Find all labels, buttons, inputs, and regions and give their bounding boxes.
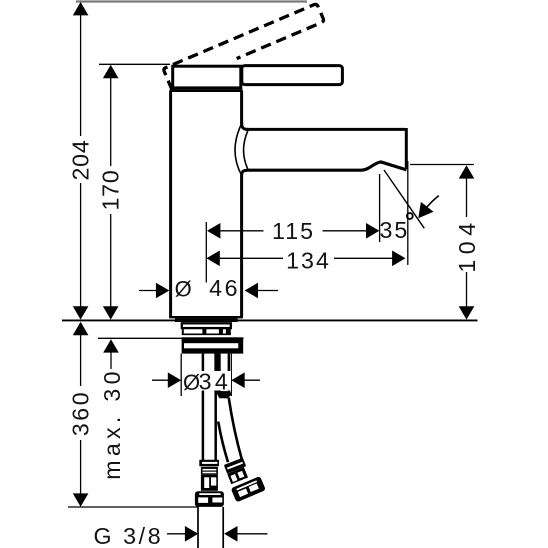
wire 35deg jet line <box>384 170 424 228</box>
arrow G38 left-pointing <box>224 526 237 542</box>
hose right elbow <box>216 391 232 399</box>
arrow 115 left <box>207 223 220 239</box>
fastening nut <box>182 337 244 353</box>
body right edge upper <box>240 91 243 124</box>
arrow 104 bottom <box>459 306 475 319</box>
bottom extension line (hose end) <box>68 506 198 508</box>
shank bottom line <box>182 333 231 335</box>
arrow dia46 left <box>156 283 169 299</box>
spout top edge <box>246 128 405 131</box>
handle lever raised (dashed outline) <box>163 3 326 90</box>
arrow G38 right-pointing <box>185 526 198 542</box>
arrow 115 right <box>366 223 379 239</box>
handle hub <box>173 66 241 88</box>
svg-text:Ø: Ø <box>175 276 192 301</box>
hose right ribbed section <box>227 467 248 484</box>
arrow 134 left <box>206 251 219 267</box>
svg-text:115: 115 <box>272 218 315 244</box>
spout joint inner arc <box>244 131 248 169</box>
arrow 204 top <box>73 2 89 15</box>
dimension dia34 right tail <box>243 379 260 381</box>
svg-text:G 3/8: G 3/8 <box>94 523 164 548</box>
spout joint corner top <box>242 123 248 130</box>
hose left stripe band <box>201 467 218 474</box>
body base ring <box>175 318 238 322</box>
dimension 104 line <box>466 178 468 217</box>
body bottom edge <box>169 316 243 318</box>
hose right end block <box>231 476 266 502</box>
svg-text:46: 46 <box>209 275 240 301</box>
dimension G38 right tail <box>236 533 268 535</box>
spout right edge <box>405 128 408 169</box>
hose right tube right outline <box>229 398 242 461</box>
node axis extension line <box>205 222 207 283</box>
hose left end block <box>195 491 224 507</box>
arrow 170 bottom <box>103 306 119 319</box>
arrow 104 top <box>459 165 475 178</box>
arrow max30 up <box>103 339 119 352</box>
arrow 134 right <box>392 251 405 267</box>
svg-text:360: 360 <box>68 390 94 436</box>
dimension dia46 left tail <box>139 290 162 292</box>
spout bottom edge with aerator notch <box>248 162 407 170</box>
extension line aerator (115 right) <box>379 174 381 242</box>
hose right vertical outlines <box>214 354 220 393</box>
wire top extension line (raised handle top reference) <box>76 0 307 2</box>
thread outline G38 <box>197 507 199 548</box>
spout joint corner bottom <box>242 170 248 176</box>
dimension 204 line <box>80 15 82 136</box>
dimension dia34 left tail <box>152 379 170 381</box>
arrow 360 bottom <box>73 493 89 506</box>
degree symbol <box>407 213 413 219</box>
dimension dia46 right tail <box>257 290 279 292</box>
hose left outlines <box>202 354 205 461</box>
arrow 170 top <box>103 65 119 78</box>
dimension 115 line <box>219 230 264 232</box>
extension lines dia34 <box>180 354 182 396</box>
arrow 360 top <box>73 322 89 335</box>
svg-text:104: 104 <box>454 217 480 272</box>
dimension 360 line <box>80 335 82 386</box>
dimension G38 left tail <box>167 533 187 535</box>
max30 reference line <box>98 337 244 339</box>
arrow dia34 right <box>231 372 244 388</box>
hose right tube left outline <box>218 422 228 463</box>
hose left window section <box>201 474 218 491</box>
handle lever <box>242 66 343 85</box>
svg-text:204: 204 <box>68 139 94 180</box>
body left edge <box>169 91 172 318</box>
svg-text:134: 134 <box>286 247 331 273</box>
leader arrow 35deg <box>427 196 439 207</box>
hose right collar <box>224 458 246 474</box>
hose left collar <box>199 460 219 466</box>
svg-text:35: 35 <box>380 217 410 243</box>
svg-text:170: 170 <box>98 169 124 210</box>
arrow 204 bottom <box>73 306 89 319</box>
dimension 170 extension line <box>99 63 170 65</box>
svg-text:max. 30: max. 30 <box>99 367 125 480</box>
escutcheon plate <box>182 323 231 328</box>
arrow dia46 right <box>245 283 258 299</box>
dimension 134 line <box>219 257 283 259</box>
body right edge lower <box>240 175 243 317</box>
svg-text:34: 34 <box>199 369 232 395</box>
extension line outlet height (104 top) <box>410 164 474 166</box>
svg-text:Ø: Ø <box>183 370 200 395</box>
body top line <box>170 89 243 92</box>
arrow dia34 left <box>168 372 181 388</box>
dimension 170 line <box>110 77 112 166</box>
dimension max30 line <box>110 352 112 369</box>
spout joint outer arc <box>235 124 242 176</box>
extension line spout tip (134 right) <box>407 161 409 265</box>
shank hatch bars <box>202 328 206 334</box>
shank sides <box>182 328 184 334</box>
label dia 34 <box>183 371 231 391</box>
mounting deck line <box>62 319 478 321</box>
